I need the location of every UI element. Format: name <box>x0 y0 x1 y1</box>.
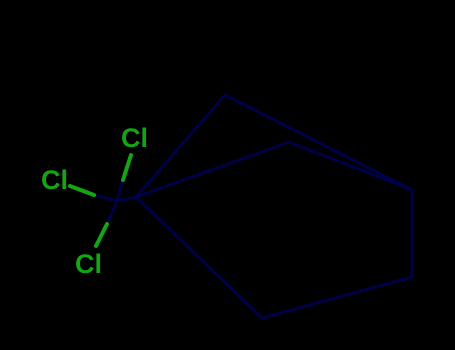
dark half of C-Cl bond left <box>94 195 117 201</box>
svg-text:Cl: Cl <box>41 165 68 195</box>
dark half of C-Cl bond bottom <box>107 201 117 224</box>
bond A-B ring edge <box>136 95 225 197</box>
bond C3-C2 ring edge <box>262 277 412 318</box>
bond Cl left green half <box>70 186 94 195</box>
bond Cl top green half <box>123 155 131 180</box>
bond B-C4 ring edge <box>225 95 412 190</box>
bond C*-A <box>117 197 136 201</box>
dark half of C-Cl bond top <box>117 180 123 201</box>
bond A-M bridge <box>136 142 289 197</box>
wire: dark C-C skeleton <box>94 95 412 318</box>
green halves of C-Cl bonds <box>70 155 131 246</box>
svg-text:Cl: Cl <box>75 249 102 279</box>
bond C4-C3 ring edge <box>411 190 414 277</box>
bond C2-A ring edge <box>136 197 262 318</box>
bond M-C4 bridge <box>289 142 412 190</box>
svg-text:Cl: Cl <box>121 123 148 153</box>
bond Cl bottom green half <box>96 224 107 246</box>
